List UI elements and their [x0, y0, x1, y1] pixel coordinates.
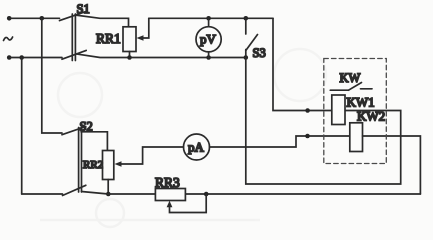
wire: RR1 wiper tap from top rail — [140, 18, 149, 38]
node: S3 bottom junction — [244, 55, 249, 60]
svg-text:KW1: KW1 — [347, 95, 375, 110]
svg-text:S3: S3 — [253, 46, 266, 60]
wire: pA right to KW2 coil — [210, 136, 350, 147]
wire: KW2 right return to bottom wire — [363, 136, 421, 194]
svg-text:KW: KW — [340, 71, 361, 85]
wire: S2 upper out to RR2 top — [81, 132, 107, 151]
node: source top terminal — [7, 16, 12, 21]
enclosure: relay dashed box — [324, 59, 387, 164]
svg-text:pV: pV — [200, 32, 217, 47]
resistor RR2 — [103, 151, 114, 180]
wire: S1 upper out to RR1 top — [75, 15, 129, 27]
node: KW2 feed junction — [305, 134, 310, 139]
node: pV bottom junction — [206, 55, 211, 60]
wire: top rail right (RR1 wiper to corner) — [149, 17, 273, 19]
relay contact KW — [330, 83, 372, 91]
node: RR1 bottom junction — [127, 55, 132, 60]
arrow: RR1 wiper — [137, 35, 144, 41]
svg-text:RR1: RR1 — [96, 31, 121, 46]
node: KW1 feed junction — [305, 108, 310, 113]
wire: top rail corner down to KW1 coil — [273, 18, 332, 110]
relay coil KW1 — [332, 95, 345, 125]
wire: bottom rail left (source to S1) — [9, 57, 62, 59]
node B: bottom rail tap — [19, 55, 24, 60]
resistor RR1 — [123, 27, 136, 52]
arrow: RR3 wiper — [167, 201, 173, 208]
wire: RR3 wiper to bottom wire — [170, 194, 207, 213]
switch S1 (double pole) — [60, 12, 87, 61]
svg-text:RR3: RR3 — [155, 175, 180, 190]
wire: bottom main right (S2 lower to KW2 return) — [82, 192, 421, 195]
node: RR2 bottom junction — [106, 192, 111, 197]
svg-text:S1: S1 — [77, 2, 90, 16]
switch S3 — [246, 18, 258, 57]
voltmeter pV — [196, 18, 221, 57]
wire: vertical from bottom rail tap down — [21, 58, 23, 195]
relay coil KW2 — [350, 123, 363, 152]
wire: S3 down and return loop to KW1 right — [246, 58, 401, 185]
svg-text:KW2: KW2 — [357, 109, 385, 124]
ammeter pA — [184, 134, 210, 160]
svg-text:pA: pA — [188, 140, 205, 155]
node A: top rail tap — [40, 16, 45, 21]
arrow: RR2 wiper — [115, 161, 122, 167]
ac source ~ — [4, 37, 13, 41]
svg-text:RR2: RR2 — [83, 159, 103, 171]
wire: S1 lower out, bottom rail to S3 — [75, 54, 245, 58]
wire: top rail left (source to S1) — [9, 17, 59, 19]
node: source bottom terminal — [7, 55, 12, 60]
node: S3 top junction — [244, 16, 249, 21]
switch S2 (double pole) — [62, 127, 86, 196]
wire: vertical from top rail tap to S2 upper — [42, 18, 62, 133]
wire: RR1 bottom stub — [129, 52, 131, 58]
wire: RR2 bottom stub — [107, 180, 109, 195]
node: pV top junction — [206, 16, 211, 21]
wire: bottom main left (to S2 lower) — [22, 193, 63, 195]
rheostat RR3 — [155, 189, 185, 201]
wire: pA left to RR2 wiper — [119, 147, 184, 164]
node: RR3 right junction — [204, 192, 209, 197]
